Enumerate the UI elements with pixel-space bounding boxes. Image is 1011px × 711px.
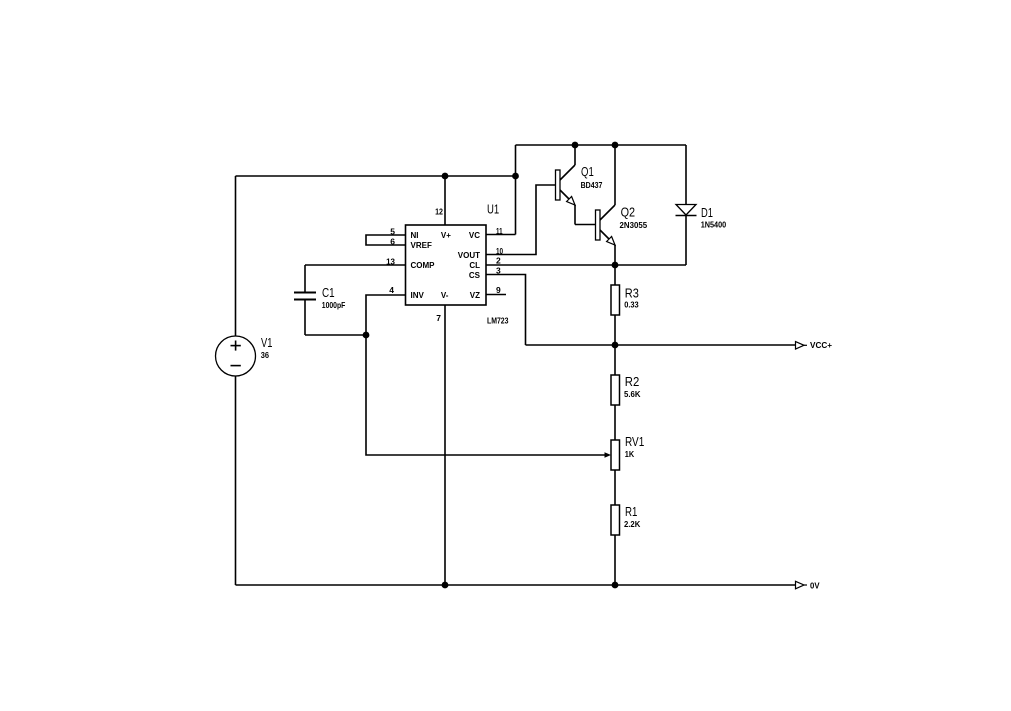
svg-text:C1: C1 <box>322 285 335 300</box>
wire C1 bottom to INV node <box>305 334 366 336</box>
svg-text:36: 36 <box>261 350 270 360</box>
RV1 wiper arrow <box>605 452 612 458</box>
wire V1 plus to V+ branch <box>236 175 516 177</box>
svg-text:1N5400: 1N5400 <box>701 220 727 230</box>
wire pin 9 VZ stub <box>486 294 506 296</box>
svg-text:VCC+: VCC+ <box>810 340 832 350</box>
svg-text:0V: 0V <box>810 581 820 591</box>
svg-text:Q2: Q2 <box>621 205 636 220</box>
junction V- pin 7 on 0V rail <box>442 582 449 589</box>
svg-text:CS: CS <box>469 271 481 280</box>
svg-text:LM723: LM723 <box>487 316 509 326</box>
terminal 0V <box>796 581 805 589</box>
svg-text:1000pF: 1000pF <box>322 300 346 310</box>
junction Q2 collector on top rail <box>612 142 619 149</box>
wire NI-VREF loop pins 5-6 <box>366 235 405 245</box>
wire pin 10 VOUT to Q1 base <box>486 185 556 255</box>
diode D1 <box>676 145 697 216</box>
svg-text:0.33: 0.33 <box>624 300 639 310</box>
svg-text:V-: V- <box>441 291 449 300</box>
svg-text:VREF: VREF <box>411 241 432 250</box>
svg-text:3: 3 <box>496 266 501 276</box>
svg-text:RV1: RV1 <box>625 434 644 449</box>
svg-text:VC: VC <box>469 231 480 240</box>
transistor Q2 <box>596 145 616 265</box>
svg-text:BD437: BD437 <box>581 180 603 190</box>
svg-text:COMP: COMP <box>411 261 436 270</box>
svg-text:5.6K: 5.6K <box>624 389 641 399</box>
svg-text:D1: D1 <box>701 205 713 220</box>
capacitor C1 <box>294 265 316 335</box>
transistor Q1 <box>556 145 576 225</box>
svg-text:CL: CL <box>469 261 480 270</box>
wire pin 2 CL to Q2 emitter and D1 <box>486 264 686 266</box>
svg-text:2N3055: 2N3055 <box>620 220 648 230</box>
svg-text:5: 5 <box>390 227 395 237</box>
svg-text:2: 2 <box>496 256 501 266</box>
potentiometer RV1 <box>611 440 620 505</box>
svg-text:9: 9 <box>496 285 501 295</box>
op-amp regulator U1 LM723 box <box>406 225 487 305</box>
wire D1 cathode drop <box>685 216 687 266</box>
resistor R3 <box>611 265 620 345</box>
wire pin 11 VC <box>486 234 516 236</box>
svg-text:4: 4 <box>389 285 394 295</box>
svg-text:Q1: Q1 <box>581 164 594 179</box>
wire bottom 0V rail <box>236 584 796 586</box>
svg-text:10: 10 <box>496 246 503 256</box>
resistor R1 <box>611 505 620 585</box>
svg-text:13: 13 <box>386 257 395 267</box>
svg-text:7: 7 <box>436 313 441 323</box>
wire pin 7 V- to 0V rail <box>444 305 446 585</box>
svg-text:R2: R2 <box>625 374 640 389</box>
junction Q1 collector on top rail <box>572 142 579 149</box>
wire pin 13 COMP to C1 <box>305 264 405 266</box>
junction Q2 emitter / R3 on CL wire <box>612 262 619 269</box>
svg-text:11: 11 <box>496 226 503 236</box>
svg-text:R3: R3 <box>625 286 639 301</box>
junction C1 / INV wire <box>363 332 370 339</box>
junction R3/R2 on VCC+ rail <box>612 342 619 349</box>
svg-text:VOUT: VOUT <box>458 251 480 260</box>
svg-text:U1: U1 <box>487 202 499 217</box>
svg-text:1K: 1K <box>625 449 635 459</box>
wire top rail (collectors to D1) <box>516 144 687 146</box>
voltage source V1 <box>216 176 256 585</box>
wire VCC+ rail <box>526 344 796 346</box>
svg-text:12: 12 <box>435 207 443 217</box>
junction VC branch on V1 wire <box>512 173 519 180</box>
resistor R2 <box>611 345 620 440</box>
svg-text:NI: NI <box>411 231 419 240</box>
svg-text:6: 6 <box>390 237 395 247</box>
wire Q1 emitter to Q2 base <box>575 224 596 226</box>
svg-text:VZ: VZ <box>470 291 480 300</box>
svg-text:V+: V+ <box>441 231 451 240</box>
wire pin 3 CS to VCC+ rail <box>486 275 526 346</box>
wire vertical V1+ rail to VC pin <box>515 145 517 235</box>
wire pin 4 INV down to RV1 wiper <box>366 295 606 455</box>
svg-text:2.2K: 2.2K <box>624 519 641 529</box>
svg-text:R1: R1 <box>625 504 637 519</box>
svg-text:INV: INV <box>411 291 425 300</box>
wire pin 12 V+ <box>444 176 446 225</box>
svg-text:V1: V1 <box>261 335 272 350</box>
junction V+ pin 12 branch <box>442 173 449 180</box>
terminal VCC+ <box>796 342 805 350</box>
junction R1 on 0V rail <box>612 582 619 589</box>
